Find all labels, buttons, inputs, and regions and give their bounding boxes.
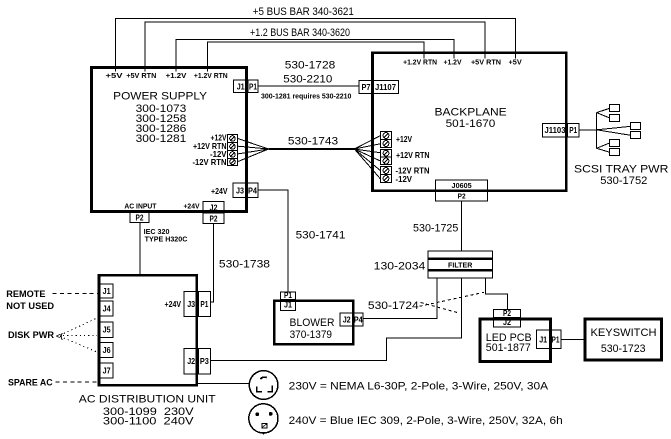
svg-text:530-1723: 530-1723 bbox=[601, 343, 646, 355]
svg-text:+24V: +24V bbox=[165, 299, 182, 309]
svg-text:NOT USED: NOT USED bbox=[6, 301, 54, 311]
svg-text:J1107: J1107 bbox=[375, 82, 396, 92]
svg-text:+5V: +5V bbox=[106, 71, 124, 80]
svg-text:-12V: -12V bbox=[396, 174, 413, 184]
svg-text:P7: P7 bbox=[362, 82, 371, 92]
svg-text:530-1738: 530-1738 bbox=[219, 259, 270, 271]
svg-text:+1.2V: +1.2V bbox=[166, 71, 188, 80]
svg-text:AC DISTRIBUTION UNIT: AC DISTRIBUTION UNIT bbox=[79, 393, 216, 405]
svg-text:530-1752: 530-1752 bbox=[600, 175, 647, 187]
svg-text:P1: P1 bbox=[569, 125, 577, 135]
svg-text:+1.2V: +1.2V bbox=[444, 58, 463, 67]
svg-text:P1: P1 bbox=[552, 334, 560, 344]
svg-text:+5V RTN: +5V RTN bbox=[471, 58, 501, 67]
svg-text:J1: J1 bbox=[284, 300, 292, 310]
svg-text:501-1670: 501-1670 bbox=[446, 118, 496, 130]
svg-text:300-1281: 300-1281 bbox=[136, 133, 187, 145]
svg-text:P2: P2 bbox=[458, 191, 466, 200]
svg-text:P3: P3 bbox=[200, 356, 209, 366]
svg-text:J3: J3 bbox=[236, 186, 244, 196]
svg-text:370-1379: 370-1379 bbox=[290, 329, 332, 341]
svg-text:+1.2 BUS BAR 340-3620: +1.2 BUS BAR 340-3620 bbox=[250, 27, 350, 39]
svg-text:+12V: +12V bbox=[396, 134, 412, 144]
svg-text:J3: J3 bbox=[187, 299, 195, 309]
svg-text:DISK PWR: DISK PWR bbox=[8, 330, 54, 340]
svg-text:P2: P2 bbox=[136, 212, 144, 222]
svg-text:REMOTE: REMOTE bbox=[6, 289, 45, 299]
svg-text:+1.2V RTN: +1.2V RTN bbox=[403, 58, 437, 67]
svg-text:+5 BUS BAR 340-3621: +5 BUS BAR 340-3621 bbox=[253, 6, 354, 18]
svg-text:230V = NEMA L6-30P, 2-Pole, 3-: 230V = NEMA L6-30P, 2-Pole, 3-Wire, 250V… bbox=[289, 380, 549, 392]
svg-text:J4: J4 bbox=[103, 303, 111, 313]
svg-text:J7: J7 bbox=[103, 366, 111, 376]
svg-text:J0605: J0605 bbox=[452, 181, 473, 190]
svg-text:501-1877: 501-1877 bbox=[486, 342, 531, 354]
svg-text:P1: P1 bbox=[200, 299, 208, 309]
svg-text:530-1725: 530-1725 bbox=[413, 223, 458, 235]
svg-text:J1: J1 bbox=[237, 81, 245, 91]
svg-text:130-2034: 130-2034 bbox=[374, 261, 426, 273]
svg-text:KEYSWITCH: KEYSWITCH bbox=[591, 327, 657, 339]
svg-text:POWER SUPPLY: POWER SUPPLY bbox=[113, 90, 207, 102]
svg-text:P2: P2 bbox=[210, 213, 218, 223]
svg-text:J2: J2 bbox=[503, 317, 511, 327]
svg-text:240V = Blue IEC 309, 2-Pole, 3: 240V = Blue IEC 309, 2-Pole, 3-Wire, 250… bbox=[289, 415, 563, 427]
svg-text:+12V RTN: +12V RTN bbox=[396, 150, 430, 160]
svg-text:J2: J2 bbox=[343, 314, 351, 324]
svg-text:TYPE H320C: TYPE H320C bbox=[145, 234, 188, 243]
svg-text:-12V RTN: -12V RTN bbox=[193, 157, 227, 167]
svg-text:J5: J5 bbox=[103, 325, 111, 335]
svg-text:AC INPUT: AC INPUT bbox=[124, 201, 156, 210]
svg-text:BLOWER: BLOWER bbox=[290, 317, 335, 329]
svg-text:+5V: +5V bbox=[509, 58, 523, 67]
svg-text:P1: P1 bbox=[249, 81, 257, 91]
svg-text:+24V: +24V bbox=[211, 186, 228, 196]
svg-text:530-1728: 530-1728 bbox=[285, 59, 336, 71]
svg-text:J2: J2 bbox=[210, 202, 218, 212]
svg-text:J1103: J1103 bbox=[545, 125, 566, 135]
svg-text:<(: <( bbox=[56, 331, 63, 340]
svg-text:J2: J2 bbox=[187, 356, 195, 366]
svg-text:530-1741: 530-1741 bbox=[296, 229, 346, 241]
svg-text:+5V RTN: +5V RTN bbox=[126, 71, 156, 80]
svg-text:+24V: +24V bbox=[183, 201, 200, 210]
svg-text:P4: P4 bbox=[354, 314, 363, 324]
svg-text:BACKPLANE: BACKPLANE bbox=[435, 107, 508, 119]
svg-text:530-1743: 530-1743 bbox=[288, 136, 338, 148]
svg-text:J6: J6 bbox=[103, 345, 111, 355]
svg-text:FILTER: FILTER bbox=[448, 261, 473, 270]
svg-text:300-1100 240V: 300-1100 240V bbox=[103, 416, 194, 428]
svg-text:+1.2V RTN: +1.2V RTN bbox=[194, 71, 228, 80]
svg-text:530-1724: 530-1724 bbox=[368, 300, 419, 312]
svg-text:J1: J1 bbox=[539, 334, 547, 344]
svg-text:P1: P1 bbox=[284, 290, 292, 300]
svg-text:SCSI TRAY PWR: SCSI TRAY PWR bbox=[574, 163, 668, 175]
svg-text:P4: P4 bbox=[248, 186, 257, 196]
svg-text:530-2210: 530-2210 bbox=[283, 73, 332, 85]
svg-text:J1: J1 bbox=[103, 286, 111, 296]
svg-text:SPARE AC: SPARE AC bbox=[8, 378, 53, 388]
svg-text:300-1281 requires 530-2210: 300-1281 requires 530-2210 bbox=[261, 94, 351, 101]
